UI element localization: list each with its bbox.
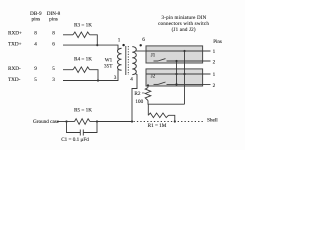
wire R4 output to junction, drop to TXD- line	[90, 70, 98, 81]
svg-text:3: 3	[52, 77, 55, 83]
resistor R5	[75, 119, 90, 125]
wire primary bottom stub	[118, 69, 122, 72]
wire secondary top to J1 pin1 line	[135, 50, 146, 52]
junction pin4 at shell line	[131, 120, 133, 122]
wire C1 loop right side	[83, 122, 97, 133]
node TXD- row labels	[8, 77, 55, 83]
svg-text:connectors with switch: connectors with switch	[158, 22, 209, 27]
svg-text:(J1 and J2): (J1 and J2)	[172, 28, 196, 33]
wire R1 left lead from rail	[147, 104, 149, 115]
label pin 1	[118, 37, 121, 43]
svg-text:R5 = 1K: R5 = 1K	[74, 107, 92, 113]
transformer W1 primary winding	[118, 48, 122, 70]
label J2	[151, 75, 156, 80]
wire secondary bottom down, jog left, down to shell line	[132, 74, 137, 122]
switch J2: stub, arm, output line	[154, 83, 159, 85]
svg-text:3: 3	[114, 75, 117, 81]
svg-text:Pins: Pins	[213, 40, 222, 45]
wire C1 loop left vertical	[67, 122, 81, 133]
wire TXD- to transformer pin 3	[63, 70, 118, 81]
junction v2/J2 pin2	[175, 83, 177, 85]
junction v2/J1 pin2	[175, 60, 177, 62]
label: connector title	[158, 16, 209, 33]
label J1 pin 1	[213, 49, 216, 55]
junction at R4/TXD-	[97, 79, 99, 81]
wire v1: J1 pin1 to J2 pin1 to R2 rail	[184, 51, 186, 104]
svg-text:J1: J1	[151, 54, 156, 59]
label pin 6	[142, 37, 145, 43]
wire solid segment to pin4 junction	[97, 121, 132, 123]
connector J1 box	[146, 46, 203, 63]
junction v1/J2 pin1	[183, 73, 185, 75]
resistor R2 vertical	[145, 88, 151, 101]
svg-text:R1 = 1M: R1 = 1M	[148, 123, 167, 129]
label R1 = 1M	[148, 123, 167, 129]
label R2 =	[134, 91, 144, 97]
svg-text:4: 4	[130, 77, 133, 83]
svg-text:1: 1	[213, 72, 216, 78]
label 100	[135, 99, 143, 105]
svg-text:R2 =: R2 =	[134, 91, 144, 97]
label R4 = 1K	[74, 56, 92, 62]
wire RXD- lead-in	[63, 69, 73, 71]
label J2 pin 2	[213, 83, 216, 89]
label R3 = 1K	[74, 22, 92, 28]
svg-text:35T: 35T	[104, 63, 113, 69]
label J1	[151, 54, 156, 59]
transformer core dotted line	[127, 46, 129, 75]
junction v2/J2 pin1 crossing	[175, 73, 177, 75]
wire main line through R5	[67, 121, 75, 123]
node: DB-9 column header	[30, 11, 42, 22]
node: DIN-8 column header	[47, 11, 61, 22]
wire R2 bottom lead + rail to v1	[148, 101, 185, 105]
svg-text:RXD-: RXD-	[8, 66, 21, 72]
wire R2 top lead	[147, 85, 149, 87]
wire dotted shell line	[134, 121, 205, 123]
svg-text:3-pin miniature DIN: 3-pin miniature DIN	[162, 16, 207, 21]
svg-text:pins: pins	[31, 16, 40, 22]
svg-text:8: 8	[34, 30, 37, 36]
phase dot secondary	[140, 44, 142, 46]
wire primary top stub	[118, 48, 122, 49]
svg-text:100: 100	[135, 99, 143, 105]
junction v1/J1 pin1	[183, 50, 185, 52]
phase dot primary	[122, 44, 124, 46]
junction left tap	[65, 120, 67, 122]
svg-text:TXD-: TXD-	[8, 77, 21, 83]
svg-text:4: 4	[34, 42, 37, 48]
resistor R3	[73, 32, 90, 38]
wire v2: J1 pin2 to J2 pin2	[176, 61, 178, 84]
label W1 35T	[104, 57, 113, 69]
junction at R3/TXD+	[96, 44, 98, 46]
svg-text:Ground case: Ground case	[33, 119, 60, 125]
node TXD+ row labels	[8, 42, 55, 48]
svg-text:8: 8	[52, 30, 55, 36]
connector J2 box	[146, 69, 203, 86]
label J1 pin 2	[213, 59, 216, 65]
wire R5 out to right tap	[90, 121, 97, 123]
wire TXD+ to transformer pin 1	[63, 45, 118, 49]
svg-text:6: 6	[142, 37, 145, 43]
svg-text:R4 = 1K: R4 = 1K	[74, 56, 92, 62]
label pin 3	[114, 75, 117, 81]
junction R1/shell	[174, 120, 176, 122]
wire J1 pin1 line	[146, 50, 211, 52]
wire R1 right lead down to shell line	[169, 115, 175, 121]
svg-text:5: 5	[34, 77, 37, 83]
switch J1: stub, arm, output line	[154, 60, 159, 62]
svg-text:6: 6	[52, 42, 55, 48]
svg-text:C1 = 0.1 μFd: C1 = 0.1 μFd	[61, 137, 89, 143]
transformer W1 secondary winding	[132, 47, 136, 75]
resistor R1	[148, 113, 168, 118]
svg-text:9: 9	[34, 66, 37, 72]
label C1 = 0.1 uFd	[61, 137, 89, 143]
transformer core solid line	[125, 46, 127, 75]
label pin 4	[130, 77, 133, 83]
wire RXD+ lead-in	[63, 34, 73, 36]
node RXD+ row labels	[8, 30, 55, 36]
svg-text:W1: W1	[105, 57, 113, 63]
svg-text:5: 5	[52, 66, 55, 72]
label Pins	[213, 40, 222, 45]
svg-text:2: 2	[213, 83, 216, 89]
junction R2 top at J2 bottom	[147, 84, 149, 86]
wire J2 pin1 line	[146, 73, 211, 75]
svg-text:J2: J2	[151, 75, 156, 80]
svg-text:1: 1	[118, 37, 121, 43]
wire R3 output to junction, drop to TXD+ line	[90, 35, 98, 45]
junction right tap	[96, 120, 98, 122]
label Shell	[207, 117, 218, 123]
label R5 = 1K	[74, 107, 92, 113]
svg-text:pins: pins	[49, 16, 58, 22]
svg-text:2: 2	[213, 59, 216, 65]
svg-text:1: 1	[213, 49, 216, 55]
capacitor C1 plates	[79, 130, 81, 136]
svg-text:R3 = 1K: R3 = 1K	[74, 22, 92, 28]
svg-text:RXD+: RXD+	[8, 30, 22, 36]
resistor R4	[73, 67, 90, 73]
node RXD- row labels	[8, 66, 55, 72]
label J2 pin 1	[213, 72, 216, 78]
wire ground case lead	[57, 121, 67, 123]
svg-text:Shell: Shell	[207, 117, 218, 123]
svg-text:TXD+: TXD+	[8, 42, 22, 48]
label Ground case	[33, 119, 60, 125]
